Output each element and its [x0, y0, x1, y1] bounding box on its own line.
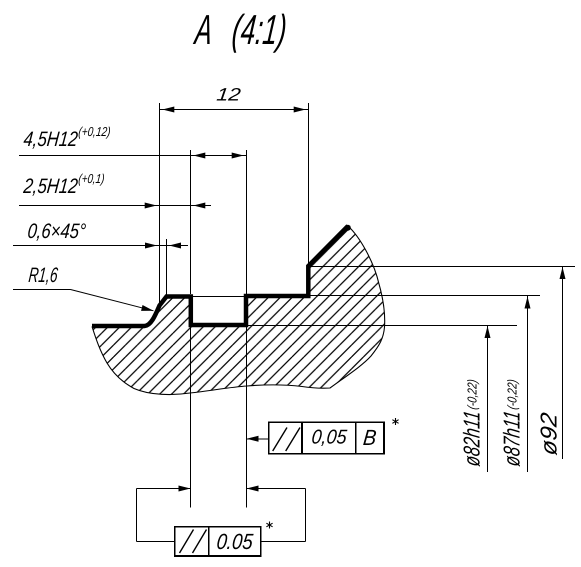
break line (wavy bottom and right arc boundary) — [92, 226, 385, 395]
svg-text:ø82h11: ø82h11 — [459, 409, 485, 468]
arrow leader R1,6 — [141, 305, 153, 311]
leader line R1,6 — [71, 290, 154, 311]
lower frame right link vertical — [305, 489, 307, 542]
extension line dia87 level — [308, 295, 540, 297]
arrow dia92 — [560, 267, 566, 279]
svg-text:(-0,22): (-0,22) — [505, 378, 520, 410]
dimension line 0,6x45 — [13, 245, 188, 247]
arrow dim12 right — [294, 107, 306, 113]
leader of upper tolerance frame — [247, 438, 269, 440]
svg-text:R1,6: R1,6 — [27, 264, 59, 287]
lower frame right link arrow line — [247, 488, 306, 490]
lower frame left link horizontal — [137, 540, 175, 542]
arrow dim4,5 left — [193, 153, 205, 159]
arrow dim12 left — [162, 107, 174, 113]
arrow dim2,5 left — [145, 203, 157, 209]
svg-text:0.05: 0.05 — [215, 529, 254, 554]
svg-text:B: B — [362, 425, 378, 450]
svg-text:(4:1): (4:1) — [230, 6, 289, 53]
extension line dia82 level — [246, 325, 517, 327]
knob at outer edge top end — [345, 225, 351, 231]
extension line groove left wall (lower) — [190, 325, 192, 508]
dimension line dia82 — [487, 325, 489, 472]
arrow dia87 — [525, 297, 531, 309]
svg-text:0,05: 0,05 — [310, 427, 348, 449]
asterisk upper — [392, 418, 398, 425]
arrow lower frame right — [247, 486, 259, 492]
parallelism symbol upper — [273, 428, 287, 452]
lower frame left link vertical — [136, 489, 138, 542]
extension line left edge — [159, 103, 161, 308]
svg-text:(-0,22): (-0,22) — [465, 378, 480, 410]
dimension line 4,5H12 — [19, 155, 247, 157]
parallelism symbol lower — [180, 530, 194, 554]
arrow dim0,6 right — [169, 243, 181, 249]
svg-text:ø92: ø92 — [536, 411, 562, 457]
extension line dia92 level — [308, 266, 575, 268]
groove mouth line — [191, 296, 247, 298]
dimension line 2,5H12 — [19, 205, 211, 207]
arrow dim2,5 right — [193, 203, 205, 209]
svg-text:12: 12 — [216, 85, 242, 105]
extension line right step — [308, 103, 310, 264]
arrow dim0,6 left — [145, 243, 157, 249]
extension line groove right wall (lower) — [246, 325, 248, 508]
lower frame right link horizontal — [261, 540, 306, 542]
extension line groove left wall (upper) — [190, 150, 192, 294]
lower frame left link arrow line — [137, 488, 191, 490]
leader shelf R1,6 — [13, 289, 71, 291]
upper tolerance frame — [269, 422, 384, 454]
arrow dia82 — [485, 326, 491, 338]
arrow dim4,5 right — [232, 153, 244, 159]
arrow lower frame left — [179, 486, 191, 492]
svg-text:0,6×45°: 0,6×45° — [26, 220, 86, 243]
lower tolerance frame — [175, 527, 261, 556]
part profile outline — [92, 226, 348, 326]
dimension line dia92 — [562, 266, 564, 459]
extension line chamfer top — [166, 239, 168, 296]
asterisk lower — [266, 522, 272, 529]
svg-text:ø87h11: ø87h11 — [499, 409, 525, 468]
extension line groove right wall (upper) — [246, 150, 248, 294]
dimension line dia87 — [527, 296, 529, 473]
arrow upper frame leader — [247, 436, 259, 442]
section hatching — [80, 215, 400, 405]
dimension line 12 — [160, 109, 309, 111]
